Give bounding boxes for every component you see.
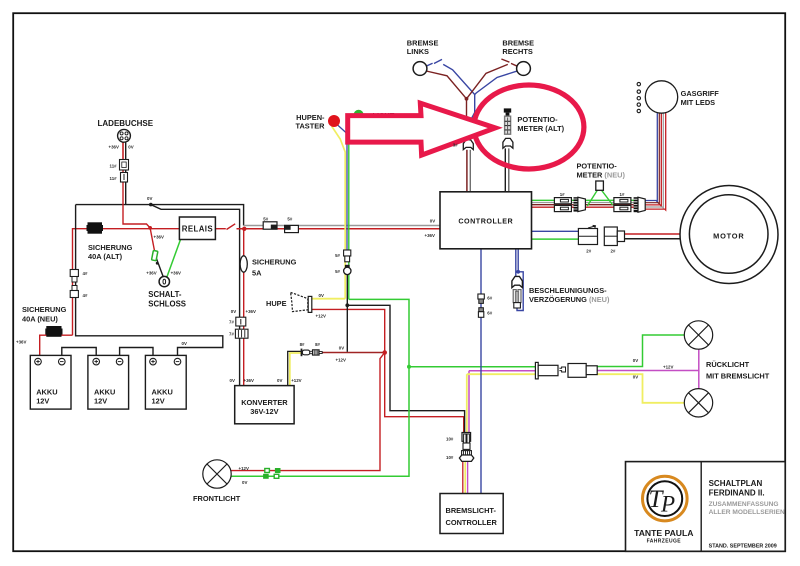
wire: red diagonal to schalt-schloss — [150, 228, 155, 256]
node red dot relais left — [148, 226, 152, 230]
wire: bremse right maroon stub — [511, 63, 517, 66]
fuse 11# lower — [121, 173, 128, 183]
svg-text:+36V: +36V — [146, 271, 156, 276]
motor M1 — [680, 186, 778, 284]
wire: red down to frontlicht — [231, 353, 385, 471]
connector 6# upper — [478, 294, 484, 299]
relais R1 box — [179, 217, 215, 240]
wire: gray 0V rail to controller — [244, 225, 440, 227]
svg-text:RECHTS: RECHTS — [502, 47, 532, 56]
svg-text:HUPE: HUPE — [266, 299, 287, 308]
ruecklicht lamp upper — [684, 321, 712, 349]
svg-text:+12V: +12V — [239, 466, 249, 471]
svg-text:3#: 3# — [453, 143, 458, 148]
svg-text:11#: 11# — [110, 176, 118, 181]
svg-text:BREMSE: BREMSE — [502, 39, 534, 48]
connector multipin b — [634, 197, 638, 212]
connector 2# b — [604, 227, 617, 246]
svg-text:MOTOR: MOTOR — [713, 232, 744, 241]
svg-text:12V: 12V — [36, 397, 49, 406]
svg-text:ALLER MODELLSERIEN: ALLER MODELLSERIEN — [709, 509, 785, 516]
potentiometer alt P1 — [504, 108, 511, 112]
wire: bremse right maroon run — [467, 64, 508, 98]
connector 5# spade on red rail — [285, 225, 299, 232]
wire: battery interconnect 2 — [120, 348, 153, 359]
wire: gasgriff bundle red — [644, 113, 662, 207]
licht-taster green button — [354, 110, 364, 120]
wire: gasgriff bundle maroon — [644, 113, 660, 204]
svg-text:+12V: +12V — [663, 364, 673, 369]
svg-text:1#: 1# — [560, 192, 565, 197]
svg-text:+12V: +12V — [291, 378, 301, 383]
akku 12V battery 1 — [30, 355, 71, 409]
svg-text:40A (NEU): 40A (NEU) — [22, 314, 58, 323]
svg-text:7#: 7# — [229, 332, 234, 337]
svg-text:AKKU: AKKU — [94, 388, 115, 397]
wire: 0V black rail from ladebuchse area — [76, 205, 244, 226]
svg-text:POTENTIO-: POTENTIO- — [517, 115, 558, 124]
connector 10# upper — [462, 433, 471, 442]
wire: +36V red rail with fuse run — [73, 229, 180, 336]
svg-text:4#: 4# — [83, 293, 88, 298]
wire: controller green to 2# — [532, 238, 579, 240]
connector 8# striped — [313, 350, 320, 355]
ruecklicht connector plug left — [535, 362, 538, 379]
wire: gasgriff bundle red2 — [644, 113, 666, 211]
svg-text:0V: 0V — [242, 480, 247, 485]
svg-text:SCHALTPLAN: SCHALTPLAN — [709, 479, 763, 488]
akku 12V battery 2 — [88, 355, 129, 409]
svg-text:FAHRZEUGE: FAHRZEUGE — [647, 538, 682, 544]
plug below poti alt — [503, 138, 513, 148]
frontlicht green crimp connectors — [265, 469, 270, 473]
beschleunigungs body — [513, 290, 516, 303]
bremse links lever circle — [413, 62, 427, 76]
svg-text:TASTER: TASTER — [295, 122, 325, 131]
wire: magenta vertical to 10# — [468, 371, 470, 433]
connector 5# on hupen bundle — [344, 250, 351, 256]
connector 5# circle on hupen bundle — [345, 265, 350, 268]
wire: licht-taster green — [349, 120, 357, 300]
svg-text:6#: 6# — [487, 296, 492, 301]
switch blade maroon right — [501, 59, 509, 62]
svg-text:12V: 12V — [94, 397, 107, 406]
svg-text:BREMSLICHT-: BREMSLICHT- — [446, 506, 497, 515]
node blue dot — [516, 270, 520, 274]
svg-text:0V: 0V — [230, 378, 235, 383]
svg-text:POTENTIO-: POTENTIO- — [577, 161, 618, 170]
wire: black 4# line down left — [76, 205, 223, 359]
svg-text:6#: 6# — [487, 311, 492, 316]
connector 4# upper — [70, 270, 78, 277]
svg-text:+36V: +36V — [244, 378, 254, 383]
svg-text:0V: 0V — [182, 341, 187, 346]
highlight arrow — [348, 103, 496, 155]
svg-text:SCHALT-: SCHALT- — [148, 290, 182, 299]
wire: red relais right to switch — [215, 228, 225, 230]
wire: bremse right blue run — [475, 71, 518, 95]
wire: ladebuchse fuse wires top — [122, 142, 124, 160]
svg-text:BESCHLEUNIGUNGS-: BESCHLEUNIGUNGS- — [529, 286, 607, 295]
wire: 10# stack wires into box — [462, 462, 464, 494]
wire: yellow after connector — [597, 374, 684, 403]
connector 8# capsule — [301, 349, 303, 357]
node black dot — [345, 303, 349, 307]
connector multipin a — [574, 197, 578, 211]
wire: 0V black rail B to konverter — [151, 205, 240, 386]
svg-text:8#: 8# — [315, 342, 320, 347]
wire: dark red from 8# connector to junction — [322, 352, 385, 354]
frontlicht lamp — [203, 460, 231, 488]
wire: red +36V to controller — [237, 228, 441, 230]
svg-text:7#: 7# — [229, 320, 234, 325]
wire: red down to 10# bundle — [385, 353, 464, 433]
wire: hupe red +12V to junction — [312, 309, 385, 350]
svg-text:+36V: +36V — [425, 233, 435, 238]
hupen-taster red button — [328, 115, 340, 127]
svg-text:4#: 4# — [83, 271, 88, 276]
ladebuchse connector — [118, 129, 131, 142]
wire: gasgriff bundle blue — [644, 113, 658, 202]
node 0V junction dot — [149, 203, 153, 207]
connector 10# lower — [462, 451, 472, 455]
schalt-schloss circle — [159, 276, 169, 286]
wire: green vertical licht rail — [231, 299, 409, 476]
svg-text:2#: 2# — [586, 248, 591, 253]
svg-text:LINKS: LINKS — [407, 47, 429, 56]
wire: bremse left blue run — [443, 64, 475, 139]
svg-text:CONTROLLER: CONTROLLER — [446, 518, 498, 527]
wire: controller blue to 2# — [532, 230, 579, 232]
svg-text:5#: 5# — [263, 216, 268, 221]
svg-text:TANTE PAULA: TANTE PAULA — [634, 528, 693, 538]
wire: red to motor — [625, 233, 681, 235]
fuse sicherung 5A oval — [240, 256, 247, 272]
wire: gasgriff bundle gray — [644, 113, 664, 209]
svg-text:+36V: +36V — [246, 309, 256, 314]
ruecklicht lamp lower — [684, 389, 712, 417]
svg-text:GASGRIFF: GASGRIFF — [681, 89, 720, 98]
svg-text:0V: 0V — [147, 196, 152, 201]
wire: poti neu green legs — [587, 190, 597, 206]
gasgriff circle — [645, 81, 677, 113]
svg-text:+12V: +12V — [336, 358, 346, 363]
wire: black to 10# bundle — [347, 305, 464, 432]
svg-text:LADEBUCHSE: LADEBUCHSE — [98, 119, 154, 128]
svg-text:8#: 8# — [300, 342, 305, 347]
svg-text:FERDINAND II.: FERDINAND II. — [709, 488, 765, 497]
green connector on schloss wire — [152, 250, 158, 260]
svg-text:0V: 0V — [633, 358, 638, 363]
wire: controller right bundle green — [532, 199, 644, 201]
svg-text:+36V: +36V — [16, 339, 26, 344]
wire: magenta after connector — [597, 349, 699, 370]
wire: hupen-taster blue — [338, 125, 347, 250]
gasgriff leds — [637, 82, 640, 85]
wire: controller right bundle red — [532, 206, 644, 208]
svg-text:+36V: +36V — [109, 145, 119, 150]
plug 3# on bremse pair — [463, 140, 473, 150]
svg-text:5#: 5# — [335, 253, 340, 258]
wire: magenta to lower lamp — [698, 371, 700, 389]
svg-text:BREMSE: BREMSE — [407, 39, 439, 48]
svg-text:36V-12V: 36V-12V — [250, 407, 278, 416]
wire: magenta to ruecklicht connector — [469, 370, 536, 372]
connector 7# upper — [236, 317, 246, 326]
wire: bremse left blue stub — [427, 63, 433, 66]
tante paula logo rings — [643, 476, 688, 521]
svg-text:0V: 0V — [231, 309, 236, 314]
wire: ladebuchse black down — [125, 142, 127, 205]
wire: hupe yellow 0V — [312, 298, 346, 300]
wire: red sicherung 40A neu to battery — [40, 335, 73, 358]
node red junction dot — [382, 350, 387, 355]
wire: battery interconnect 1 — [62, 348, 96, 359]
ruecklicht connector plug right — [568, 364, 586, 378]
connector 1# b — [614, 198, 631, 204]
fuse sicherung 40A neu — [47, 327, 61, 337]
wire: long blue controller to bremslicht-controller — [480, 249, 482, 494]
logo box — [626, 462, 786, 552]
wire: ladebuchse red down — [123, 142, 150, 228]
svg-text:VERZÖGERUNG (NEU): VERZÖGERUNG (NEU) — [529, 295, 610, 304]
svg-text:SCHLOSS: SCHLOSS — [148, 300, 186, 309]
poti neu square — [596, 181, 604, 190]
connector 4# lower — [72, 286, 77, 291]
svg-text:11#: 11# — [110, 163, 118, 168]
wire: poti alt black pair to controller — [504, 148, 506, 191]
wire: maroon down to plug — [466, 99, 468, 140]
wire: hupen black 0V branch — [346, 275, 348, 352]
node red junction at 5A branch — [242, 227, 246, 231]
svg-text:METER (ALT): METER (ALT) — [517, 124, 564, 133]
wire: yellow to ruecklicht connector — [467, 373, 536, 375]
svg-text:5A: 5A — [252, 269, 262, 278]
switch blade blue left — [434, 59, 442, 63]
svg-text:0V: 0V — [277, 378, 282, 383]
wire: controller right bundle maroon — [532, 204, 644, 206]
wire: black to motor — [625, 238, 681, 240]
svg-text:FRONTLICHT: FRONTLICHT — [193, 494, 241, 503]
svg-text:P: P — [660, 492, 675, 517]
wire: green to ruecklicht connector — [409, 366, 536, 368]
svg-text:SICHERUNG: SICHERUNG — [22, 305, 67, 314]
wire: green after connector — [597, 335, 684, 367]
svg-text:0V: 0V — [319, 293, 324, 298]
svg-text:METER (NEU): METER (NEU) — [577, 171, 626, 180]
wire: gray plug to controller — [469, 150, 471, 192]
svg-text:MIT BREMSLICHT: MIT BREMSLICHT — [706, 372, 770, 381]
bremslicht-controller box — [440, 494, 503, 534]
svg-text:40A (ALT): 40A (ALT) — [88, 252, 123, 261]
fuse sicherung 40A alt — [88, 223, 102, 233]
svg-text:+36V: +36V — [154, 234, 164, 239]
svg-text:0V: 0V — [633, 375, 638, 380]
svg-text:SICHERUNG: SICHERUNG — [252, 258, 297, 267]
svg-text:1#: 1# — [620, 192, 625, 197]
wire: blue pair to beschleunigungs loop — [515, 249, 517, 276]
node green dot — [407, 365, 411, 369]
svg-text:RELAIS: RELAIS — [182, 225, 213, 234]
akku 12V battery 3 — [145, 355, 186, 409]
svg-text:ZUSAMMENFASSUNG: ZUSAMMENFASSUNG — [709, 501, 779, 508]
switch blade red — [227, 224, 236, 230]
konverter box — [235, 386, 294, 424]
hupe horn — [291, 292, 308, 311]
svg-text:STAND. SEPTEMBER 2009: STAND. SEPTEMBER 2009 — [709, 544, 777, 550]
svg-text:MIT LEDS: MIT LEDS — [681, 98, 716, 107]
controller U1 box — [440, 192, 532, 249]
svg-text:12V: 12V — [152, 397, 165, 406]
svg-text:CONTROLLER: CONTROLLER — [458, 216, 513, 225]
svg-text:KONVERTER: KONVERTER — [241, 398, 288, 407]
connector 5# spade on gray rail — [263, 222, 277, 229]
wire: bremse left maroon run — [426, 71, 466, 99]
svg-text:AKKU: AKKU — [36, 388, 57, 397]
svg-text:0V: 0V — [430, 219, 435, 224]
svg-text:+36V: +36V — [171, 271, 181, 276]
svg-text:10#: 10# — [446, 455, 454, 460]
connector 7# lower — [235, 329, 248, 338]
svg-text:HUPEN-: HUPEN- — [296, 113, 325, 122]
fuse 11# upper — [120, 160, 129, 171]
bremse rechts lever circle — [517, 62, 531, 76]
wire: green diagonal relais to schalt-schloss — [167, 240, 181, 278]
svg-text:+12V: +12V — [316, 314, 326, 319]
wire: red down to sicherung 5A and konverter — [243, 229, 245, 386]
wire: blue loop of beschleunigungs symbol — [517, 272, 523, 311]
beschleunigungs plug — [512, 276, 523, 287]
wire: maroon plug to controller — [466, 150, 468, 192]
svg-text:0V: 0V — [339, 346, 344, 351]
svg-text:5#: 5# — [287, 216, 292, 221]
connector 6# lower — [479, 308, 484, 312]
svg-text:10#: 10# — [446, 436, 454, 441]
wire: konverter output black 0V — [288, 351, 301, 385]
svg-text:5#: 5# — [335, 269, 340, 274]
svg-text:RÜCKLICHT: RÜCKLICHT — [706, 360, 750, 369]
wire: konverter output yellow — [290, 353, 301, 386]
svg-text:2#: 2# — [611, 248, 616, 253]
connector 1# a — [554, 198, 571, 204]
highlight ellipse — [474, 85, 584, 169]
wire: yellow vertical to 10# — [466, 374, 468, 432]
svg-text:0V: 0V — [128, 145, 133, 150]
wire: hupen-taster yellow — [332, 126, 345, 298]
svg-text:AKKU: AKKU — [152, 388, 173, 397]
node maroon dot — [465, 97, 469, 101]
connector 2# a — [578, 229, 597, 245]
svg-text:SICHERUNG: SICHERUNG — [88, 243, 133, 252]
wire: controller right bundle gray — [532, 202, 644, 204]
